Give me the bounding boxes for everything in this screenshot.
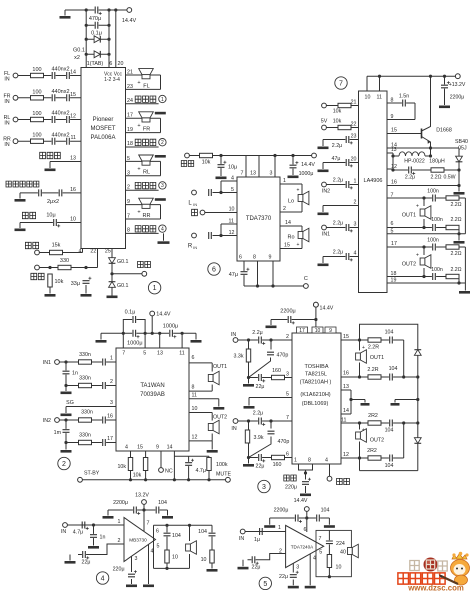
svg-text:MOSFET: MOSFET bbox=[91, 126, 116, 132]
svg-text:13: 13 bbox=[343, 384, 349, 390]
svg-text:25: 25 bbox=[105, 249, 111, 255]
svg-text:TA1WAN: TA1WAN bbox=[140, 383, 164, 389]
svg-text:7: 7 bbox=[127, 214, 130, 220]
svg-text:16: 16 bbox=[107, 414, 113, 420]
svg-text:9: 9 bbox=[156, 445, 159, 451]
svg-text:70039AB: 70039AB bbox=[140, 392, 165, 398]
svg-text:12: 12 bbox=[192, 435, 198, 441]
svg-text:2.2Ω: 2.2Ω bbox=[450, 217, 461, 223]
svg-text:104: 104 bbox=[158, 500, 167, 506]
svg-text:IN: IN bbox=[193, 246, 197, 250]
svg-text:4: 4 bbox=[231, 176, 234, 182]
svg-text:IN: IN bbox=[231, 332, 236, 338]
svg-text:4.7μ: 4.7μ bbox=[196, 468, 206, 474]
svg-text:330n: 330n bbox=[81, 410, 93, 416]
svg-text:1: 1 bbox=[118, 519, 121, 525]
svg-text:1(TAB): 1(TAB) bbox=[87, 61, 104, 67]
svg-text:x2: x2 bbox=[74, 55, 80, 61]
svg-text:440nx2: 440nx2 bbox=[51, 111, 69, 117]
svg-text:3: 3 bbox=[127, 170, 130, 176]
svg-text:10: 10 bbox=[365, 95, 371, 101]
svg-text:104: 104 bbox=[198, 529, 207, 535]
svg-text:14: 14 bbox=[70, 70, 76, 76]
svg-text:2.2R: 2.2R bbox=[367, 367, 378, 373]
svg-text:470p: 470p bbox=[277, 353, 289, 359]
svg-text:13: 13 bbox=[157, 351, 163, 357]
svg-text:19: 19 bbox=[127, 127, 133, 133]
svg-text:RR: RR bbox=[143, 213, 151, 219]
svg-text:5V: 5V bbox=[321, 119, 328, 125]
svg-text:15: 15 bbox=[137, 445, 143, 451]
svg-text:440nx2: 440nx2 bbox=[51, 132, 69, 138]
svg-text:2.2Ω: 2.2Ω bbox=[430, 175, 441, 181]
svg-text:2: 2 bbox=[283, 206, 286, 212]
svg-text:9: 9 bbox=[269, 255, 272, 261]
svg-text:40: 40 bbox=[340, 550, 346, 556]
svg-text:+: + bbox=[137, 166, 140, 172]
svg-text:2R2: 2R2 bbox=[367, 448, 377, 454]
svg-text:10μ: 10μ bbox=[228, 165, 237, 171]
svg-text:R: R bbox=[188, 244, 193, 250]
svg-text:5: 5 bbox=[127, 156, 130, 162]
svg-text:2: 2 bbox=[354, 200, 357, 206]
svg-text:3: 3 bbox=[262, 484, 266, 491]
svg-text:100n: 100n bbox=[431, 267, 443, 273]
svg-text:+: + bbox=[416, 204, 419, 210]
svg-text:20: 20 bbox=[351, 157, 357, 163]
svg-text:+13.2V: +13.2V bbox=[449, 82, 466, 88]
svg-text:10μ: 10μ bbox=[46, 213, 55, 219]
svg-text:10k: 10k bbox=[202, 160, 211, 166]
svg-text:1: 1 bbox=[153, 285, 157, 292]
svg-text:16: 16 bbox=[70, 187, 76, 193]
svg-text:1: 1 bbox=[354, 179, 357, 185]
svg-text:6: 6 bbox=[212, 267, 216, 274]
svg-text:2.2Ω: 2.2Ω bbox=[450, 202, 461, 208]
svg-text:22μ: 22μ bbox=[256, 384, 265, 390]
svg-text:14.4V: 14.4V bbox=[156, 312, 171, 318]
svg-text:18: 18 bbox=[127, 141, 133, 147]
svg-text:2200μ: 2200μ bbox=[113, 500, 128, 506]
svg-text:2.2Ω: 2.2Ω bbox=[450, 267, 461, 273]
svg-text:SG: SG bbox=[66, 400, 74, 406]
svg-text:23: 23 bbox=[351, 134, 357, 140]
svg-text:10k: 10k bbox=[117, 464, 126, 470]
svg-text:4: 4 bbox=[125, 445, 128, 451]
svg-text:100: 100 bbox=[32, 133, 41, 139]
svg-text:3: 3 bbox=[135, 556, 138, 562]
svg-text:IN2: IN2 bbox=[322, 189, 330, 195]
svg-text:TA8215L: TA8215L bbox=[305, 372, 327, 378]
svg-text:HP-0022: HP-0022 bbox=[404, 159, 425, 165]
svg-text:(TA8210AH ): (TA8210AH ) bbox=[300, 380, 332, 386]
svg-text:IN: IN bbox=[231, 426, 236, 432]
svg-text:100n: 100n bbox=[431, 217, 443, 223]
svg-text:5: 5 bbox=[263, 581, 267, 588]
svg-text:2.2μ: 2.2μ bbox=[252, 330, 262, 336]
svg-text:7: 7 bbox=[319, 536, 322, 542]
svg-text:6: 6 bbox=[286, 452, 289, 458]
svg-text:RL: RL bbox=[143, 170, 150, 176]
svg-text:470p: 470p bbox=[278, 439, 290, 445]
svg-text:+: + bbox=[137, 210, 140, 216]
svg-text:11: 11 bbox=[377, 95, 383, 101]
svg-text:22μ: 22μ bbox=[252, 565, 261, 571]
svg-text:440nx2: 440nx2 bbox=[51, 67, 69, 73]
svg-text:2.2μ: 2.2μ bbox=[253, 411, 263, 417]
svg-text:4: 4 bbox=[101, 576, 105, 583]
svg-text:2.2μ: 2.2μ bbox=[332, 143, 342, 149]
svg-text:12: 12 bbox=[70, 114, 76, 120]
svg-text:17: 17 bbox=[299, 328, 305, 334]
svg-text:10k: 10k bbox=[333, 119, 342, 125]
svg-text:2.2μ: 2.2μ bbox=[405, 175, 415, 181]
svg-text:8: 8 bbox=[253, 255, 256, 261]
svg-text:330n: 330n bbox=[79, 433, 91, 439]
svg-text:3: 3 bbox=[270, 171, 273, 177]
svg-text:100: 100 bbox=[32, 89, 41, 95]
svg-text:224: 224 bbox=[336, 541, 345, 547]
svg-text:20: 20 bbox=[118, 61, 124, 67]
svg-text:2.2Ω: 2.2Ω bbox=[450, 251, 461, 257]
svg-text:10k: 10k bbox=[55, 279, 64, 285]
svg-text:330: 330 bbox=[60, 258, 69, 264]
svg-text:+: + bbox=[137, 123, 140, 129]
svg-text:1: 1 bbox=[294, 458, 297, 464]
svg-text:D1668: D1668 bbox=[436, 128, 452, 134]
svg-text:14.4V: 14.4V bbox=[122, 18, 137, 24]
svg-text:330n: 330n bbox=[79, 352, 91, 358]
svg-text:Lo: Lo bbox=[288, 199, 294, 205]
svg-text:220μ: 220μ bbox=[113, 567, 125, 573]
svg-text:2.2R: 2.2R bbox=[368, 345, 379, 351]
svg-text:IN: IN bbox=[239, 536, 244, 542]
svg-text:3: 3 bbox=[161, 183, 164, 189]
svg-text:IN: IN bbox=[4, 77, 9, 83]
svg-text:220μ: 220μ bbox=[285, 485, 297, 491]
svg-text:160: 160 bbox=[272, 368, 281, 374]
svg-text:100n: 100n bbox=[427, 238, 439, 244]
svg-text:5: 5 bbox=[157, 544, 160, 550]
svg-text:11: 11 bbox=[192, 393, 198, 399]
svg-text:3.9k: 3.9k bbox=[254, 435, 264, 441]
svg-text:PAL006A: PAL006A bbox=[91, 135, 116, 141]
svg-text:100n: 100n bbox=[427, 189, 439, 195]
svg-text:7: 7 bbox=[122, 351, 125, 357]
svg-text:1: 1 bbox=[110, 356, 113, 362]
svg-text:5: 5 bbox=[231, 187, 234, 193]
svg-text:6: 6 bbox=[304, 527, 307, 533]
svg-text:13: 13 bbox=[250, 171, 256, 177]
svg-text:5: 5 bbox=[143, 351, 146, 357]
svg-text:5: 5 bbox=[286, 392, 289, 398]
svg-text:100: 100 bbox=[32, 111, 41, 117]
svg-text:3: 3 bbox=[354, 222, 357, 228]
svg-text:11: 11 bbox=[71, 135, 77, 141]
svg-text:FR: FR bbox=[143, 127, 150, 133]
svg-text:7: 7 bbox=[339, 81, 343, 88]
svg-text:23: 23 bbox=[127, 84, 133, 90]
svg-text:FL: FL bbox=[143, 83, 149, 89]
svg-text:3: 3 bbox=[286, 372, 289, 378]
svg-text:4: 4 bbox=[354, 251, 357, 257]
svg-text:15: 15 bbox=[391, 128, 397, 134]
svg-text:2: 2 bbox=[110, 379, 113, 385]
svg-text:4: 4 bbox=[161, 226, 164, 232]
svg-text:6: 6 bbox=[239, 255, 242, 261]
svg-text:14: 14 bbox=[167, 445, 173, 451]
svg-text:104: 104 bbox=[385, 330, 394, 336]
svg-text:OUT1: OUT1 bbox=[213, 364, 227, 370]
svg-text:17: 17 bbox=[127, 113, 133, 119]
svg-text:22μ: 22μ bbox=[256, 464, 265, 470]
svg-text:1n: 1n bbox=[72, 371, 78, 377]
svg-text:10: 10 bbox=[70, 217, 76, 223]
svg-text:12: 12 bbox=[229, 230, 235, 236]
svg-text:2μx2: 2μx2 bbox=[47, 199, 59, 205]
svg-text:100: 100 bbox=[32, 67, 41, 73]
svg-text:1000μ: 1000μ bbox=[299, 171, 314, 177]
svg-text:7: 7 bbox=[241, 171, 244, 177]
svg-text:2: 2 bbox=[62, 461, 66, 468]
svg-text:440nx2: 440nx2 bbox=[51, 89, 69, 95]
svg-text:104: 104 bbox=[385, 428, 394, 434]
svg-text:10: 10 bbox=[315, 328, 321, 334]
svg-text:13: 13 bbox=[391, 147, 397, 153]
svg-text:22μ: 22μ bbox=[82, 560, 91, 566]
svg-text:OUT2: OUT2 bbox=[370, 438, 384, 444]
svg-text:1μ: 1μ bbox=[254, 537, 260, 543]
svg-text:OUT1: OUT1 bbox=[402, 213, 416, 219]
svg-text:3: 3 bbox=[296, 565, 299, 571]
svg-text:1m: 1m bbox=[54, 430, 62, 436]
svg-text:15: 15 bbox=[70, 92, 76, 98]
svg-text:IN: IN bbox=[4, 121, 9, 127]
svg-text:+: + bbox=[297, 242, 300, 248]
svg-text:www.dzsc.com: www.dzsc.com bbox=[407, 584, 464, 593]
svg-text:4: 4 bbox=[325, 458, 328, 464]
svg-text:TDA7370: TDA7370 bbox=[246, 216, 272, 222]
svg-text:47μ: 47μ bbox=[332, 156, 341, 162]
svg-text:9: 9 bbox=[127, 199, 130, 205]
svg-text:2200μ: 2200μ bbox=[450, 95, 465, 101]
svg-text:MUTE: MUTE bbox=[216, 472, 231, 478]
svg-text:14: 14 bbox=[285, 220, 291, 226]
svg-text:10: 10 bbox=[336, 565, 342, 571]
svg-text:(DBL1069): (DBL1069) bbox=[302, 401, 329, 407]
svg-text:3: 3 bbox=[110, 400, 113, 406]
svg-text:104: 104 bbox=[321, 508, 330, 514]
svg-text:IN: IN bbox=[4, 142, 9, 148]
svg-text:G0.1: G0.1 bbox=[117, 259, 129, 265]
svg-text:13.2V: 13.2V bbox=[135, 493, 149, 499]
svg-text:15k: 15k bbox=[52, 243, 61, 249]
svg-text:4: 4 bbox=[313, 556, 316, 562]
svg-text:+: + bbox=[416, 253, 419, 259]
svg-text:7: 7 bbox=[147, 521, 150, 527]
svg-text:14.4V: 14.4V bbox=[320, 306, 334, 312]
svg-text:1: 1 bbox=[283, 178, 286, 184]
svg-text:IN: IN bbox=[61, 529, 66, 535]
svg-text:104: 104 bbox=[385, 463, 394, 469]
svg-text:6: 6 bbox=[109, 61, 112, 67]
svg-text:330n: 330n bbox=[79, 376, 91, 382]
svg-text:21: 21 bbox=[127, 70, 133, 76]
svg-text:14: 14 bbox=[343, 408, 349, 414]
svg-text:6: 6 bbox=[192, 355, 195, 361]
svg-text:2R2: 2R2 bbox=[368, 413, 378, 419]
svg-text:4.7μ: 4.7μ bbox=[73, 530, 83, 536]
svg-text:8: 8 bbox=[308, 458, 311, 464]
svg-text:IN: IN bbox=[193, 203, 197, 207]
svg-text:OUT2: OUT2 bbox=[213, 415, 227, 421]
svg-text:ST-BY: ST-BY bbox=[84, 471, 100, 477]
svg-text:14.4V: 14.4V bbox=[294, 498, 308, 504]
svg-text:1: 1 bbox=[161, 97, 164, 103]
svg-text:17: 17 bbox=[391, 241, 397, 247]
svg-text:470μ: 470μ bbox=[89, 16, 101, 22]
svg-text:22μ: 22μ bbox=[279, 574, 288, 580]
svg-text:TDA7240A: TDA7240A bbox=[291, 545, 314, 550]
svg-text:4: 4 bbox=[79, 249, 82, 255]
svg-text:6: 6 bbox=[156, 529, 159, 535]
svg-text:9: 9 bbox=[329, 328, 332, 334]
svg-text:17: 17 bbox=[107, 436, 113, 442]
svg-text:0.5W: 0.5W bbox=[443, 175, 455, 181]
svg-text:IN: IN bbox=[4, 99, 9, 105]
svg-text:2.2μ: 2.2μ bbox=[333, 178, 343, 184]
svg-text:3.3k: 3.3k bbox=[233, 354, 243, 360]
svg-text:8: 8 bbox=[192, 385, 195, 391]
svg-text:2.2μ: 2.2μ bbox=[333, 221, 343, 227]
svg-text:Pioneer: Pioneer bbox=[93, 117, 114, 123]
svg-text:15: 15 bbox=[343, 334, 349, 340]
svg-text:14.4V: 14.4V bbox=[301, 162, 315, 168]
svg-text:16: 16 bbox=[343, 371, 349, 377]
svg-text:Ro: Ro bbox=[287, 235, 294, 241]
svg-text:15: 15 bbox=[284, 243, 290, 249]
svg-text:C: C bbox=[304, 276, 308, 282]
svg-text:104: 104 bbox=[172, 533, 181, 539]
svg-text:1n: 1n bbox=[100, 535, 106, 541]
svg-text:1000μ: 1000μ bbox=[163, 324, 178, 330]
svg-text:160: 160 bbox=[273, 462, 282, 468]
svg-text:100k: 100k bbox=[216, 462, 228, 468]
svg-text:24: 24 bbox=[127, 98, 133, 104]
svg-text:22: 22 bbox=[90, 249, 96, 255]
svg-text:104: 104 bbox=[389, 366, 398, 372]
svg-text:(K1A6210H): (K1A6210H) bbox=[300, 392, 330, 398]
svg-text:10: 10 bbox=[172, 555, 178, 561]
svg-text:1-2 3-4: 1-2 3-4 bbox=[104, 77, 120, 83]
svg-text:7: 7 bbox=[286, 415, 289, 421]
svg-text:10: 10 bbox=[192, 406, 198, 412]
svg-text:2200μ: 2200μ bbox=[274, 508, 289, 514]
svg-text:+: + bbox=[297, 188, 300, 194]
svg-text:IN1: IN1 bbox=[43, 360, 51, 366]
svg-text:6: 6 bbox=[391, 221, 394, 227]
svg-text:10k: 10k bbox=[133, 473, 142, 479]
svg-text:OUT2: OUT2 bbox=[402, 262, 416, 268]
svg-text:180μH: 180μH bbox=[429, 159, 445, 165]
svg-text:IN1: IN1 bbox=[322, 232, 330, 238]
svg-text:G0.1: G0.1 bbox=[117, 283, 129, 289]
svg-text:1000μ: 1000μ bbox=[127, 341, 142, 347]
svg-text:10: 10 bbox=[229, 207, 235, 213]
svg-text:9: 9 bbox=[391, 114, 394, 120]
svg-text:16: 16 bbox=[391, 180, 397, 186]
svg-text:11: 11 bbox=[229, 219, 235, 225]
svg-text:SB40: SB40 bbox=[455, 139, 468, 145]
svg-text:2200μ: 2200μ bbox=[280, 309, 295, 315]
svg-text:1: 1 bbox=[278, 525, 281, 531]
svg-text:OUT1: OUT1 bbox=[370, 355, 384, 361]
svg-text:13: 13 bbox=[70, 156, 76, 162]
svg-text:10: 10 bbox=[201, 557, 207, 563]
svg-text:2: 2 bbox=[118, 538, 121, 544]
svg-text:5: 5 bbox=[319, 550, 322, 556]
svg-text:2: 2 bbox=[161, 140, 164, 146]
svg-text:0.1μ: 0.1μ bbox=[91, 31, 102, 37]
svg-text:2.2μ: 2.2μ bbox=[333, 250, 343, 256]
svg-text:NC: NC bbox=[165, 469, 173, 475]
svg-text:47μ: 47μ bbox=[229, 272, 238, 278]
svg-text:LA4906: LA4906 bbox=[364, 178, 383, 184]
svg-text:12: 12 bbox=[343, 452, 349, 458]
svg-text:2: 2 bbox=[127, 184, 130, 190]
svg-text:0.1μ: 0.1μ bbox=[125, 310, 136, 316]
svg-text:+: + bbox=[362, 345, 365, 351]
svg-text:1.5n: 1.5n bbox=[399, 94, 409, 100]
svg-text:+: + bbox=[362, 428, 365, 434]
svg-text:MB3730: MB3730 bbox=[129, 538, 147, 543]
svg-text:+: + bbox=[137, 80, 140, 86]
svg-text:-05J: -05J bbox=[456, 146, 467, 152]
svg-text:TOSHIBA: TOSHIBA bbox=[304, 364, 328, 370]
svg-text:33μ: 33μ bbox=[71, 281, 80, 287]
svg-text:G0.1: G0.1 bbox=[73, 48, 85, 54]
svg-text:2: 2 bbox=[286, 334, 289, 340]
svg-text:11: 11 bbox=[179, 351, 185, 357]
svg-text:8: 8 bbox=[127, 228, 130, 234]
svg-text:IN2: IN2 bbox=[43, 418, 51, 424]
svg-text:10k: 10k bbox=[333, 109, 342, 115]
